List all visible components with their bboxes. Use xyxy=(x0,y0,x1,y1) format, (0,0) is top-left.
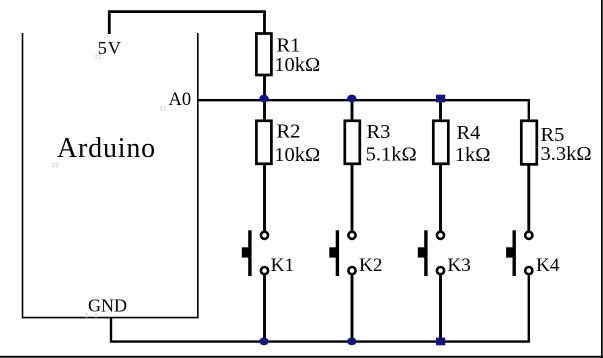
svg-text:R3: R3 xyxy=(367,121,391,143)
svg-text:3.3kΩ: 3.3kΩ xyxy=(541,143,592,165)
svg-text:Arduino: Arduino xyxy=(57,133,156,164)
svg-text:GND: GND xyxy=(88,295,127,315)
svg-text:K3: K3 xyxy=(447,255,470,276)
svg-text:5V: 5V xyxy=(98,38,122,58)
svg-text:5.1kΩ: 5.1kΩ xyxy=(366,144,417,166)
svg-text:A0: A0 xyxy=(169,90,192,110)
svg-text:R4: R4 xyxy=(457,122,481,144)
svg-text:1kΩ: 1kΩ xyxy=(455,144,491,166)
svg-text:10kΩ: 10kΩ xyxy=(274,54,320,76)
svg-text:K1: K1 xyxy=(271,255,294,276)
svg-text:K2: K2 xyxy=(359,255,382,276)
svg-text:10kΩ: 10kΩ xyxy=(274,144,320,166)
svg-text:R2: R2 xyxy=(277,121,301,143)
svg-text:K4: K4 xyxy=(536,255,560,276)
